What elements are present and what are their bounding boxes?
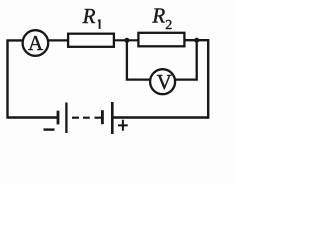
wire R2 to top-right corner and down right side [185, 40, 208, 119]
battery cell 1 negative plate (short) [57, 111, 60, 125]
voltmeter letter V [157, 70, 172, 94]
ammeter A (circle) [23, 30, 49, 56]
wire bottom-right from corner to battery positive plate [113, 116, 208, 119]
svg-text:A: A [28, 31, 44, 55]
svg-text:R: R [82, 4, 96, 28]
battery cell 2 positive plate (long) [111, 102, 114, 134]
label R2 [151, 3, 172, 33]
label R1 [82, 4, 100, 29]
battery plus polarity label [118, 120, 128, 131]
wire R1 to R2 through node J1 [114, 39, 139, 41]
voltmeter V (circle) [150, 69, 175, 94]
wire bottom-left from corner to battery negative plate [8, 116, 58, 119]
node J1 (junction dot left of R2) [124, 38, 129, 43]
svg-text:V: V [157, 70, 172, 94]
ammeter letter A [28, 31, 44, 55]
resistor R1 (box) [68, 34, 114, 47]
wire left side and top-left segment to ammeter [8, 40, 23, 118]
resistor R2 (box) [138, 33, 184, 47]
battery cell 1 positive plate (long) [65, 103, 67, 134]
node J2 (junction dot right of R2) [194, 38, 199, 43]
battery cell 2 negative plate (short) [101, 110, 104, 124]
svg-text:R: R [151, 3, 165, 27]
wire voltmeter branch right: node J2 down and left to voltmeter [176, 40, 197, 79]
wire ammeter to resistor R1 [49, 39, 68, 41]
battery minus polarity label [44, 128, 55, 130]
wire dashed link between battery cells [72, 117, 101, 119]
svg-text:2: 2 [165, 18, 172, 33]
wire voltmeter branch left: node J1 down and right to voltmeter [127, 40, 151, 79]
